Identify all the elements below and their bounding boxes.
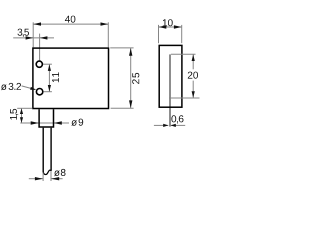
- leader line to bottom hole: [22, 86, 37, 90]
- dimension 40 line with arrows: [33, 22, 108, 25]
- label o3.2: [1, 83, 21, 90]
- label 0,6: [171, 115, 183, 123]
- wire: 40mm dim right extension line: [107, 22, 109, 47]
- label 1,5 (rotated): [10, 109, 18, 120]
- wire: 1,5 dim top extension line: [17, 107, 32, 109]
- wire: 10mm dim right extension: [181, 25, 183, 43]
- hole top (o3.2): [36, 61, 42, 67]
- label 10: [163, 19, 173, 26]
- dimension 20 line with arrows (broken for text): [192, 54, 195, 98]
- body outline side view: [159, 45, 182, 107]
- label o8: [54, 169, 65, 176]
- shaft right edge: [50, 128, 52, 171]
- dimension 10 line with arrows: [159, 25, 182, 28]
- wire: 20mm dim top extension: [171, 53, 196, 55]
- hole bottom (o3.2): [36, 89, 42, 95]
- wire: 11mm dim bottom extension from hole: [44, 91, 52, 93]
- wire: 10mm dim left extension: [158, 25, 160, 43]
- dimension 3,5 line with outside arrows: [13, 36, 54, 39]
- wire: o8 dim right extension below break: [50, 171, 52, 181]
- wire: 25mm dim top extension: [110, 47, 133, 49]
- wire: o8 dim left extension below break: [42, 173, 44, 182]
- label 11 (rotated): [52, 72, 59, 82]
- dimension 1,5 line with arrows: [20, 108, 23, 123]
- wire: 20mm dim bottom extension: [169, 97, 200, 99]
- body outline front view (40x25 plate): [33, 48, 109, 108]
- dimension 0,6 with outside arrows: [154, 124, 185, 127]
- wire: 40mm dim left extension line: [32, 22, 34, 47]
- wire: 25mm dim bottom extension: [111, 107, 134, 109]
- dimension o8 with outside arrows: [29, 177, 63, 180]
- clamp plate gray line (side view): [169, 54, 171, 126]
- shaft break wavy line: [43, 170, 51, 174]
- label 3,5: [18, 29, 30, 37]
- collar outline (o9 boss): [39, 109, 53, 127]
- wire: 11mm dim top extension from hole: [43, 63, 52, 65]
- dimension 25 line with arrows: [129, 48, 132, 108]
- wire: hole centerline extension: [39, 34, 41, 61]
- dimension 11 line with arrows: [48, 64, 51, 92]
- label 40: [65, 16, 76, 23]
- shaft left edge: [42, 128, 44, 173]
- label 20: [188, 72, 198, 79]
- label 25 (rotated): [132, 73, 139, 84]
- label o9: [71, 119, 83, 126]
- dimension o9 line across collar with outside arrows: [20, 121, 69, 124]
